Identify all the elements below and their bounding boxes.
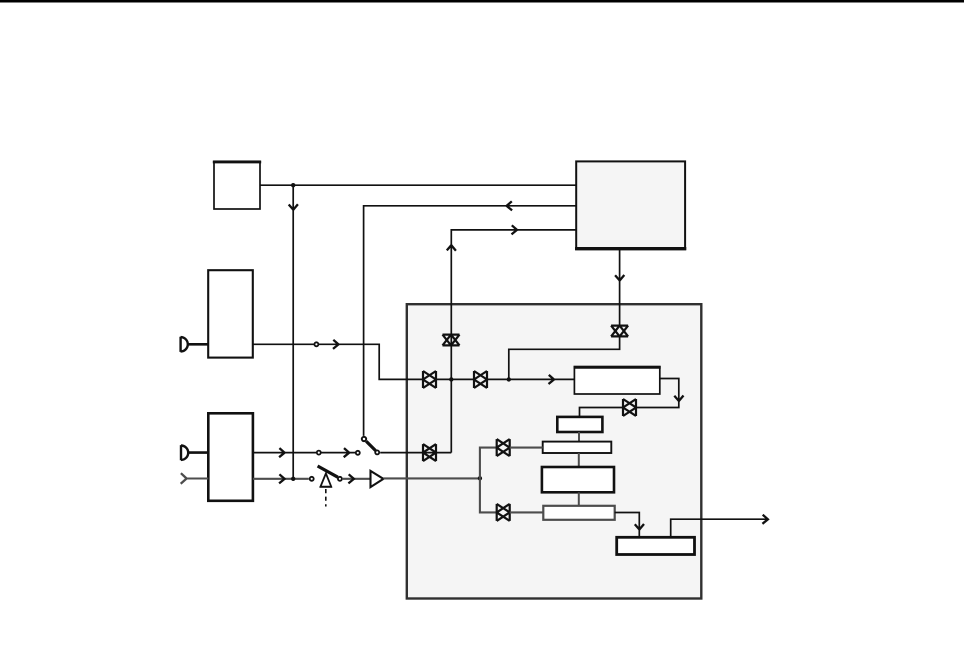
wire B out (y=206) to x=364 then down to switch: [364, 206, 577, 436]
connector rect3 to rect4: [578, 453, 580, 467]
arrow right on D lower wire: [279, 474, 285, 483]
connector circle on D upper wire: [317, 451, 321, 455]
wire amplifier to node (gray): [383, 477, 480, 479]
valve V3 (629,407): [623, 399, 636, 416]
arrow down on rect1 out wire: [674, 396, 683, 402]
rect3: [543, 442, 612, 453]
wire vertical x=293 down to lower path: [292, 185, 294, 479]
wire mic D to block D: [188, 451, 208, 454]
switch S2 blade: [318, 466, 338, 477]
switch S1 blade: [366, 441, 375, 450]
block D (left lower): [208, 413, 253, 501]
switch S2 left contact: [310, 477, 314, 481]
arrow right on C wire: [333, 340, 339, 349]
wire S2 to amplifier (gray): [343, 478, 371, 480]
arrow right before amplifier: [348, 474, 354, 483]
connector rect2 to rect3: [578, 432, 580, 442]
switch S1 right contact: [375, 450, 379, 454]
valve VV2 (vertical pipe, x=620): [611, 326, 628, 337]
wire line-in to block D (gray): [187, 477, 209, 479]
arrow right at output: [762, 515, 768, 524]
wire D upper out to switch S1: [253, 452, 356, 454]
wire S1 to valve V4 and up x=451: [380, 452, 451, 454]
mic symbol C (half circle): [181, 337, 188, 352]
rect1 (mixer stage): [574, 367, 661, 394]
rect5: [543, 506, 614, 520]
rect6 (output block): [617, 537, 695, 554]
arrow down on x=293 wire: [289, 204, 298, 210]
valve V4 (429,452): [423, 444, 436, 461]
arrow right into rect1: [549, 375, 555, 384]
wire mic C to block C: [188, 343, 209, 346]
arrow left on B out wire: [507, 201, 512, 210]
switch S2 actuator dashed stem: [325, 489, 327, 507]
arrow down into rect6: [635, 524, 644, 530]
branch down from node to valve V6 and rect5 (gray): [480, 478, 497, 512]
line-in arrow (left, gray): [181, 473, 187, 484]
arrow right 2 on D upper wire: [344, 448, 350, 457]
node at 451,379: [449, 377, 453, 381]
amplifier triangle: [371, 471, 384, 487]
shaded subsystem box: [407, 304, 702, 598]
wire rect1 out right, down, left through valve V3, down into rect2: [636, 379, 679, 408]
valve V1 (429,379): [423, 371, 436, 388]
switch S2 actuator triangle: [321, 473, 332, 486]
rect2 (small block): [557, 417, 602, 432]
wire C out to elbow into subsystem (y=344 then down to y=379): [253, 344, 423, 379]
wire B bottom down into subsystem: [619, 249, 621, 326]
arrow right into B: [512, 225, 518, 234]
valve VV1 (vertical pipe, x=451): [443, 335, 460, 346]
branch up from node to valve V5 and rect3 (gray): [480, 448, 497, 479]
wire A to B: [260, 184, 576, 186]
top rule: [0, 0, 964, 3]
wire V6 to rect5 (gray): [510, 511, 544, 513]
node at 293,185: [291, 183, 295, 187]
block C (left middle): [208, 270, 253, 357]
switch S2 right contact: [338, 477, 342, 481]
arrow up on x=451 wire: [447, 245, 456, 251]
connector rect4 to rect5: [578, 492, 580, 506]
block A (top-left): [213, 161, 261, 209]
arrow right on D upper wire: [279, 448, 285, 457]
arrow down below B: [615, 275, 624, 281]
mic symbol D (half circle): [181, 445, 188, 460]
switch S1 open contact (left): [356, 451, 360, 455]
valve V5 (503,447): [497, 439, 510, 456]
wire D lower out (gray) to switch S2: [253, 478, 309, 480]
rect4: [542, 467, 614, 492]
node at 480,478: [478, 476, 482, 480]
wire V5 to rect3 (gray): [510, 447, 543, 449]
wire V3 to rect2: [580, 408, 624, 417]
valve V2 (480,379): [474, 371, 487, 388]
connector circle on C wire: [314, 342, 318, 346]
valve V6 (503,512): [497, 504, 510, 521]
output wire from rect6 to the right: [671, 519, 767, 537]
wire from VV2 to node on y=379: [509, 336, 620, 379]
node at 293,479: [291, 477, 295, 481]
block B (top-right): [575, 161, 686, 249]
wire rect5 to rect6 with arrow: [615, 513, 640, 538]
switch S1 pivot contact (top): [362, 437, 366, 441]
wire into B (y=229) from x=451 vertical: [451, 230, 576, 453]
node at 509,379: [507, 377, 511, 381]
wire V2 to rect1: [487, 378, 574, 380]
wire V1 to V2: [436, 378, 474, 380]
